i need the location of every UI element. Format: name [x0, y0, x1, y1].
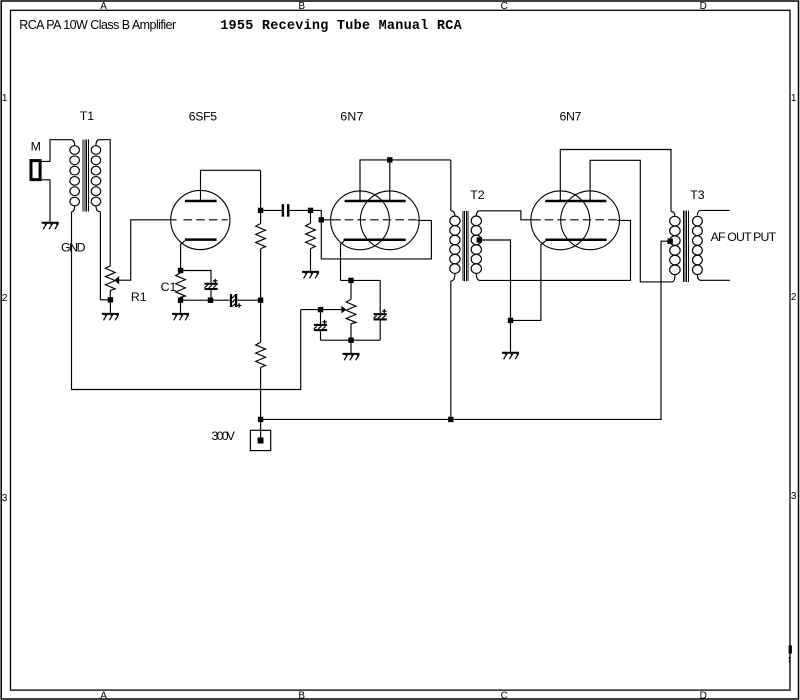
svg-text:1: 1: [2, 93, 8, 104]
300V terminal inner square: [258, 438, 264, 444]
T3 center tap junction: [668, 239, 673, 244]
wire cathode to right cap: [379, 280, 381, 313]
wire T1 secondary bottom to R1 bottom junction: [100, 212, 108, 300]
wire T2 secondary top to 6N7 grid: [480, 211, 541, 220]
svg-text:GND: GND: [61, 240, 86, 254]
transformer T1 core: [83, 140, 88, 212]
svg-text:B: B: [298, 690, 305, 700]
border clipped marks right edge: [789, 645, 792, 662]
svg-text:M: M: [31, 139, 41, 153]
junction B+ bus left: [258, 417, 263, 422]
wire left cap to bottom bus: [320, 331, 322, 340]
junction supply column at bus: [258, 298, 263, 303]
6N7 plate leads to bus: [360, 160, 451, 201]
junction resistor bottom: [178, 298, 183, 303]
transformer T2 primary coil: [450, 211, 460, 281]
wire plate bus down to T2: [450, 160, 452, 211]
junction 6SF5 cathode: [178, 268, 183, 273]
6SF5 plate bar: [185, 200, 217, 203]
junction wiper: [318, 307, 323, 312]
margin letters top: [100, 1, 707, 12]
wire mic bottom to ground: [42, 180, 50, 222]
junction 6N7 right plate: [387, 157, 392, 162]
capacitor N (horizontal electrolytic): [231, 294, 241, 308]
cathode horizontal wire: [341, 279, 381, 281]
svg-text:C1: C1: [161, 280, 177, 294]
6SF5 cathode lead: [181, 241, 185, 268]
transformer T1 secondary coil: [91, 140, 101, 212]
margin numbers right: [791, 93, 797, 502]
ground (6SF5 cathode): [172, 314, 189, 320]
ground (R1): [102, 314, 119, 320]
capacitor bypass right (electrolytic): [374, 309, 387, 319]
transformer T3 secondary coil: [693, 210, 703, 280]
wire right cap to bottom bus: [379, 321, 381, 341]
svg-text:300V: 300V: [212, 429, 236, 443]
svg-text:T2: T2: [470, 188, 485, 202]
T2 center tap junction: [477, 237, 482, 242]
wire T1 secondary top to R1: [100, 140, 111, 266]
svg-text:6N7: 6N7: [560, 109, 582, 123]
pot wiper arrow: [341, 306, 346, 314]
resistor plate load 6SF5: [256, 224, 266, 249]
microphone M: [31, 161, 40, 180]
margin numbers left: [2, 93, 8, 504]
6N7 grid lead solid: [324, 219, 341, 221]
6N7 PP plate bar: [545, 200, 606, 203]
ground (T2 tap): [502, 353, 519, 359]
potentiometer R1: [105, 266, 115, 298]
tube 6N7 second triode envelope: [360, 191, 419, 250]
ground (mic): [42, 223, 59, 229]
T3 secondary output bottom: [701, 279, 730, 281]
svg-text:D: D: [700, 1, 707, 12]
transformer T2 core: [463, 211, 468, 281]
junction pot bottom: [348, 338, 353, 343]
wire T2 primary bottom to B+ bus: [450, 281, 452, 417]
junction under cap: [208, 298, 213, 303]
supply column: junction at plate node: [258, 208, 263, 213]
svg-text:6SF5: 6SF5: [189, 109, 217, 123]
junction tap/cathode: [508, 318, 513, 323]
wire N cap to supply column: [237, 299, 258, 301]
junction 6N7 cathode: [348, 278, 353, 283]
tube 6N7 PP second triode envelope: [561, 191, 620, 250]
wire junction to ground: [350, 343, 352, 353]
6N7 PP cathode bar: [545, 239, 606, 242]
tube 6N7 first triode envelope: [331, 191, 390, 250]
svg-text:2: 2: [2, 293, 8, 304]
wire between resistors: [260, 249, 262, 343]
junction B+ bus T2: [448, 417, 453, 422]
svg-text:C: C: [501, 690, 508, 700]
capacitor bypass 6SF5 (electrolytic): [204, 279, 217, 289]
6N7 PP grid dashes: [545, 219, 619, 221]
svg-text:B: B: [298, 1, 305, 12]
wire junction to ground: [180, 303, 182, 313]
svg-text:3: 3: [791, 491, 797, 502]
wire cathode junction to bypass cap: [183, 271, 211, 283]
transformer T1 primary coil: [70, 140, 80, 212]
300V terminal box: [250, 430, 270, 450]
wire wiper junction down to left cap: [320, 312, 322, 324]
junction R1 bottom: [108, 297, 113, 302]
tube 6SF5 envelope: [171, 190, 230, 249]
wire plate node down: [260, 170, 262, 223]
svg-text:RCA PA 10W Class B Amplifier: RCA PA 10W Class B Amplifier: [19, 18, 176, 32]
tube 6N7 PP first triode envelope: [531, 191, 590, 250]
6N7 plate bar: [345, 200, 406, 203]
transformer T3 primary coil: [670, 212, 681, 282]
svg-text:T3: T3: [690, 188, 705, 202]
T3 secondary output top: [701, 209, 730, 211]
svg-text:3: 3: [2, 493, 8, 504]
svg-text:C: C: [501, 1, 508, 12]
6N7 grid dashes: [345, 219, 418, 221]
resistor grid leak 6N7: [306, 223, 316, 248]
svg-text:2: 2: [791, 292, 797, 303]
wire R1 wiper to 6SF5 grid: [119, 220, 177, 280]
wire T2 secondary bottom to grid2: [480, 220, 631, 280]
6SF5 grid dashes: [184, 219, 228, 221]
wire junction to pot: [350, 283, 352, 299]
svg-text:D: D: [700, 690, 707, 700]
wire resistor to B+ bus: [260, 368, 262, 438]
transformer T3 core: [683, 210, 688, 282]
wire T1 primary bottom long return: [72, 212, 301, 390]
svg-text:A: A: [100, 690, 107, 700]
6N7 grid tie loop: [321, 220, 431, 259]
wire grid resistor to ground: [310, 249, 312, 271]
svg-text:AF OUT PUT: AF OUT PUT: [711, 230, 777, 244]
svg-text:6N7: 6N7: [340, 109, 363, 123]
wire junction down to grid resistor: [310, 213, 312, 223]
svg-text:A: A: [100, 1, 107, 12]
cathode pot bottom bus: [321, 339, 381, 341]
6N7 PP cathode lead: [513, 241, 546, 320]
ground (grid leak): [302, 272, 319, 278]
junction grid resistor top: [308, 208, 313, 213]
6N7 cathode bar: [344, 239, 406, 242]
svg-text:1955 Receving Tube Manual RCA: 1955 Receving Tube Manual RCA: [220, 19, 462, 34]
wire center tap down: [482, 240, 511, 352]
wire wiper to hum line: [301, 309, 342, 311]
6N7 PP right plate to T3 bottom: [590, 160, 672, 282]
6SF5 plate lead: [201, 170, 261, 201]
cathode bus wire: [181, 299, 230, 301]
junction 6N7 grid: [319, 217, 324, 222]
wire cap node to 6N7 grid: [313, 210, 321, 217]
6N7 PP left plate to T3 top: [560, 150, 671, 212]
wire cap to bus: [210, 290, 212, 298]
potentiometer cathode bias: [346, 299, 356, 337]
svg-text:T1: T1: [80, 109, 95, 123]
R1 wiper arrow: [114, 276, 119, 285]
resistor decoupling: [256, 342, 266, 367]
coupling capacitor C: [263, 204, 308, 217]
resistor cathode 6SF5: [176, 273, 186, 298]
wire junction to ground: [109, 302, 111, 313]
capacitor bypass left (electrolytic): [314, 320, 327, 330]
B+ bus: [261, 241, 668, 419]
6SF5 cathode bar: [185, 238, 217, 241]
6N7 cathode lead: [341, 241, 345, 280]
svg-text:1: 1: [791, 93, 797, 104]
wire mic top to T1 primary: [42, 140, 71, 162]
svg-text:R1: R1: [131, 290, 147, 304]
ground (6N7 cathode): [343, 354, 360, 360]
transformer T2 secondary coil: [471, 211, 481, 281]
margin letters bottom: [100, 690, 707, 700]
